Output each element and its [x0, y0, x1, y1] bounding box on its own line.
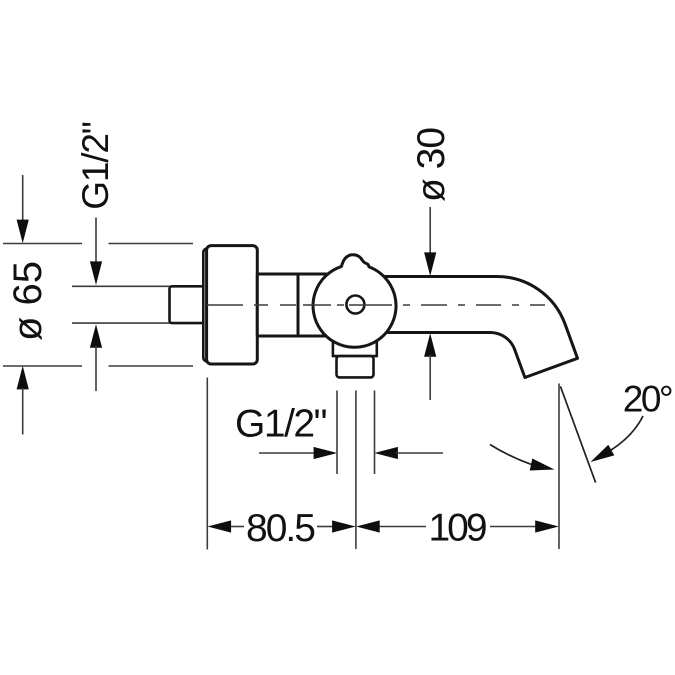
dim o65 ext top right: [109, 243, 194, 245]
body joint line: [297, 274, 300, 336]
svg-text:G1/2": G1/2": [75, 122, 116, 209]
arrowhead G1/2-left up: [90, 324, 102, 348]
arrowhead 109 left: [356, 520, 380, 532]
angle 20 slant line: [560, 386, 595, 482]
dim G1/2-left line top: [95, 218, 97, 264]
dim o65 ext top left: [3, 243, 82, 245]
ext line outlet left: [336, 391, 338, 475]
arrowhead G1/2-bottom left-pointing: [374, 447, 398, 459]
wall flange back plate: [203, 249, 217, 362]
dim o65 line bottom: [22, 388, 24, 435]
valve center screw circle: [346, 296, 364, 314]
arrowhead 80.5 left: [208, 520, 232, 532]
inlet stub: [170, 286, 209, 323]
angle arc right: [611, 416, 644, 450]
wall flange body: [207, 246, 258, 364]
dim 80.5 line left segment: [229, 526, 244, 528]
arrowhead o30 up: [424, 333, 436, 357]
svg-text:20°: 20°: [623, 379, 672, 420]
dim o65 ext bottom left: [3, 365, 82, 367]
svg-text:ø 30: ø 30: [410, 128, 453, 202]
dim o30 line bottom: [429, 355, 431, 400]
ext line outlet right: [374, 391, 376, 475]
outlet pipe G1/2: [337, 356, 374, 377]
dim o30 line top: [429, 207, 431, 254]
dim G1/2-bottom left leader: [259, 452, 315, 454]
svg-text:G1/2": G1/2": [235, 403, 327, 446]
arrowhead angle right: [591, 445, 615, 462]
ext line spout-end: [558, 384, 560, 550]
svg-text:109: 109: [428, 506, 485, 549]
dim G1/2-bottom right leader: [396, 452, 443, 454]
arrowhead 80.5 right: [332, 520, 356, 532]
valve body circle with cartridge cap bump: [313, 255, 396, 347]
mixer body cylinder: [257, 274, 356, 336]
dim o65 line top: [22, 175, 24, 221]
arrowhead 109 right: [535, 520, 559, 532]
centerline dash-dot: [207, 304, 545, 306]
dim o65 ext bottom right: [109, 365, 194, 367]
dim 80.5 line right segment: [317, 526, 333, 528]
ext line valve-center bottom: [355, 391, 357, 550]
ext line flange-axis bottom: [206, 378, 208, 550]
extension line inlet-stub top: [72, 285, 172, 287]
arrowhead o65 down: [17, 220, 29, 244]
arrowhead G1/2-bottom right-pointing: [314, 447, 338, 459]
arrowhead G1/2-left down: [90, 261, 102, 285]
angle arc left: [490, 445, 532, 465]
dim G1/2-left line bottom: [95, 346, 97, 391]
svg-text:ø 65: ø 65: [6, 261, 50, 341]
arrowhead o30 down: [424, 252, 436, 276]
extension line inlet-stub bottom: [72, 322, 172, 324]
dim 109 line left segment: [379, 526, 426, 528]
spout: [380, 277, 578, 378]
outlet nut: [333, 338, 377, 356]
dim 109 line right segment: [490, 526, 536, 528]
arrowhead o65 up: [17, 366, 29, 390]
arrowhead angle left: [530, 459, 555, 471]
svg-text:80.5: 80.5: [246, 507, 315, 550]
